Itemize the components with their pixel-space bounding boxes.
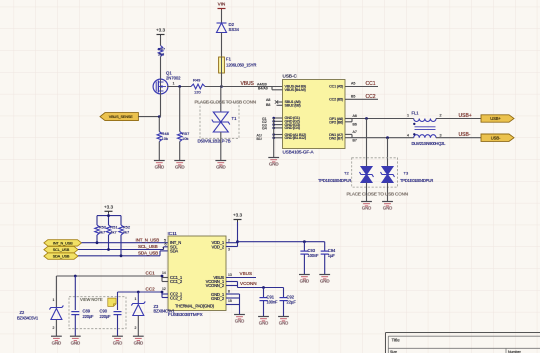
svg-text:SCL_USB: SCL_USB <box>53 247 70 252</box>
svg-text:A8: A8 <box>266 98 270 102</box>
node VDD junction <box>236 240 239 243</box>
wire INT_N net <box>82 242 169 244</box>
ground (R48) <box>154 161 165 170</box>
svg-text:PLACE CLOSE TO USB CONN: PLACE CLOSE TO USB CONN <box>347 192 408 197</box>
svg-text:1: 1 <box>135 297 137 301</box>
svg-text:12: 12 <box>162 287 166 291</box>
svg-text:GND: GND <box>362 206 371 211</box>
svg-text:B8: B8 <box>266 103 270 107</box>
svg-text:3: 3 <box>440 133 442 137</box>
node Q1/R57 junction <box>178 85 181 88</box>
wire D2 to F1 <box>221 33 223 58</box>
svg-text:220pF: 220pF <box>100 314 112 319</box>
svg-text:100nF: 100nF <box>267 300 279 305</box>
pin CC1 wire <box>345 86 378 88</box>
svg-text:B4/A9: B4/A9 <box>258 87 268 91</box>
node DN/T3 junction <box>386 136 389 139</box>
ground (C93) <box>299 275 310 284</box>
svg-text:2: 2 <box>228 238 230 242</box>
svg-text:SDA_USB: SDA_USB <box>138 251 158 256</box>
capacitor C91 <box>260 288 279 317</box>
ground (C90) <box>112 336 123 345</box>
svg-text:GND_2: GND_2 <box>211 296 225 301</box>
svg-text:1206L050_15YR: 1206L050_15YR <box>226 63 256 68</box>
TVS diode T3 <box>381 167 409 183</box>
op-amp IC11 FUSB303B <box>168 231 227 317</box>
wire R50 to INT_N <box>96 235 98 243</box>
power +3.3 (IC11 VDD) <box>233 213 243 223</box>
wire R48 to ground <box>158 142 160 161</box>
svg-text:IC11: IC11 <box>168 231 178 236</box>
svg-text:Z2: Z2 <box>20 310 26 315</box>
ground (T2) <box>361 202 372 211</box>
node VBUS junction at F1 <box>220 85 223 88</box>
svg-text:GND: GND <box>259 321 268 326</box>
node C91 junction <box>262 286 265 289</box>
svg-text:CC2: CC2 <box>146 287 156 292</box>
svg-text:C90: C90 <box>100 309 108 314</box>
node R51 junction <box>107 248 110 251</box>
wire IC11 ground tie <box>226 294 240 314</box>
svg-text:B5: B5 <box>351 94 355 98</box>
wire USB-C ground bus <box>272 117 282 157</box>
ground (IC11) <box>234 315 245 324</box>
svg-text:T1: T1 <box>232 116 238 121</box>
inductor FL1 common-mode choke <box>407 111 446 146</box>
wire R57 to ground <box>179 142 181 161</box>
svg-text:USB-C: USB-C <box>283 74 298 79</box>
svg-text:SDA: SDA <box>170 248 178 253</box>
ground (T1) <box>215 161 226 170</box>
transistor Q1 <box>153 71 181 95</box>
svg-text:FL1: FL1 <box>412 111 420 116</box>
svg-text:TPD1E01B04DPLR: TPD1E01B04DPLR <box>318 178 351 183</box>
T1 dashed box <box>200 102 239 138</box>
svg-text:GND (G4): GND (G4) <box>285 126 301 130</box>
wire SCL net <box>78 247 168 250</box>
wire VBUS node to T1 <box>220 87 222 113</box>
resistor R52 <box>119 225 131 236</box>
wire VBUS to USB-C <box>222 86 283 88</box>
pin DN wires <box>345 130 357 142</box>
svg-text:USB4105-GF-A: USB4105-GF-A <box>283 150 315 155</box>
svg-text:SS34: SS34 <box>229 27 240 32</box>
svg-text:B1/: B1/ <box>257 137 262 141</box>
svg-text:VCONN_2: VCONN_2 <box>206 283 225 288</box>
wire CC1 to Z2 <box>55 276 57 308</box>
ground (C94) <box>319 275 330 284</box>
capacitor C94 <box>321 242 336 274</box>
wire DN junction to T3 <box>387 138 389 166</box>
svg-text:GND: GND <box>216 165 225 170</box>
VIEW NOTE dashed box <box>69 297 126 329</box>
node pull-up tie <box>107 214 110 217</box>
power +3.3 (Q1 pull-up) <box>156 28 166 38</box>
wire VDD to decoupling caps <box>238 241 325 243</box>
svg-text:4k7: 4k7 <box>110 230 117 235</box>
wire CC2 to C90 <box>117 292 119 310</box>
svg-text:GND: GND <box>113 340 122 345</box>
port INT_N_USB <box>44 240 82 246</box>
svg-text:+3.3: +3.3 <box>156 28 166 33</box>
svg-text:A7: A7 <box>353 130 357 134</box>
ground (T3) <box>382 202 393 211</box>
svg-text:GND: GND <box>155 165 164 170</box>
resistor R48 <box>157 131 170 142</box>
svg-text:INT_N_USB: INT_N_USB <box>53 240 73 245</box>
svg-text:VDD_2: VDD_2 <box>212 244 225 249</box>
svg-text:PLACE CLOSE TO USB CONN: PLACE CLOSE TO USB CONN <box>195 100 256 105</box>
node CC1 pin tie <box>161 275 164 278</box>
svg-text:TPD1E01B04DPLR: TPD1E01B04DPLR <box>400 178 433 183</box>
svg-text:VBUS (B4 A9): VBUS (B4 A9) <box>285 88 307 92</box>
ground (USB-C shell) <box>268 158 279 167</box>
port SCL_USB <box>44 246 78 252</box>
svg-text:4k7: 4k7 <box>123 230 130 235</box>
svg-text:A6: A6 <box>353 114 357 118</box>
zener Z2 <box>17 298 63 330</box>
svg-text:T2: T2 <box>344 171 349 176</box>
wire R52 to SDA <box>120 235 122 256</box>
node R50 junction <box>96 241 99 244</box>
ground (C91) <box>258 317 269 326</box>
svg-text:GND: GND <box>134 340 143 345</box>
power VIN <box>218 2 226 12</box>
svg-text:BZX84C5V1: BZX84C5V1 <box>17 315 39 320</box>
node R52 junction <box>120 254 123 257</box>
node CC2 pin tie <box>161 291 164 294</box>
power +3.3 (pull-ups) <box>104 204 114 214</box>
svg-text:1: 1 <box>407 114 409 118</box>
svg-text:2: 2 <box>135 326 137 330</box>
resistor R47 <box>158 46 166 57</box>
wire Z2 to ground <box>55 320 57 337</box>
svg-text:3k3: 3k3 <box>158 52 165 57</box>
svg-text:CC2_2: CC2_2 <box>170 295 183 300</box>
svg-text:GND: GND <box>71 340 80 345</box>
svg-text:3: 3 <box>228 247 230 251</box>
svg-text:22µF: 22µF <box>287 300 297 305</box>
svg-text:USB+: USB+ <box>490 116 501 121</box>
svg-text:2: 2 <box>440 114 442 118</box>
ground (Z3) <box>133 336 144 345</box>
svg-text:DP2 (B6): DP2 (B6) <box>329 121 344 125</box>
svg-text:8: 8 <box>228 290 230 294</box>
svg-text:1: 1 <box>53 298 55 302</box>
svg-text:15: 15 <box>228 299 232 303</box>
svg-text:B7: B7 <box>353 138 357 142</box>
svg-text:10k: 10k <box>162 136 168 141</box>
svg-text:1µF: 1µF <box>328 253 336 258</box>
T2 T3 dashed box <box>352 158 398 187</box>
svg-text:DN2 (B7): DN2 (B7) <box>329 137 344 141</box>
svg-text:USB-: USB- <box>459 132 471 138</box>
svg-text:220pF: 220pF <box>83 314 95 319</box>
TVS diode T2 <box>344 167 374 183</box>
svg-text:GND: GND <box>300 279 309 284</box>
resistor R50 <box>95 225 107 236</box>
svg-text:100nF: 100nF <box>308 253 320 258</box>
resistor R57 <box>178 131 191 142</box>
svg-text:13: 13 <box>228 273 232 277</box>
svg-text:CC2 (B5): CC2 (B5) <box>329 98 344 102</box>
wire node to R57 <box>179 87 181 132</box>
svg-text:BZX84C5V1: BZX84C5V1 <box>154 308 176 313</box>
resistor R51 <box>106 225 118 236</box>
node Z3 junction <box>137 291 140 294</box>
svg-text:+3.3: +3.3 <box>104 204 114 209</box>
diode D2 <box>217 22 240 33</box>
svg-text:B6: B6 <box>353 123 357 127</box>
capacitor C93 <box>300 242 319 274</box>
wire DN to FL1 <box>352 137 414 139</box>
svg-text:GND: GND <box>235 319 244 324</box>
wire VBUS pin stub <box>271 87 273 90</box>
pin DP wires <box>345 114 357 127</box>
node gate junction <box>158 115 161 118</box>
wire VBUS_SENSE to Q1 gate net <box>138 116 159 118</box>
svg-text:10k: 10k <box>182 136 188 141</box>
svg-text:VBUS_SENSE: VBUS_SENSE <box>109 115 133 119</box>
svg-text:CC1_2: CC1_2 <box>170 279 183 284</box>
wire CC1 net <box>56 276 168 282</box>
svg-text:GND: GND <box>383 206 392 211</box>
ground (Z2) <box>51 336 62 345</box>
svg-text:DLW21SN900HQ2L: DLW21SN900HQ2L <box>412 141 447 146</box>
svg-text:6: 6 <box>165 243 167 247</box>
svg-text:CC1: CC1 <box>146 271 156 276</box>
zener Z3 <box>131 297 175 330</box>
wire VIN to D2 <box>221 10 223 23</box>
svg-text:CC1: CC1 <box>366 81 376 87</box>
capacitor C92 <box>280 288 297 317</box>
wire CC1 to C89 <box>74 276 76 310</box>
svg-text:GND: GND <box>52 340 61 345</box>
ground (C89) <box>70 336 81 345</box>
svg-text:C89: C89 <box>83 309 91 314</box>
pin SBU2 stub <box>277 104 283 106</box>
wire FL1 to USB- port <box>436 137 481 139</box>
svg-text:4k7: 4k7 <box>99 230 106 235</box>
wire CC2 to Z3 <box>137 292 139 304</box>
wire +3.3 to R47 <box>160 36 162 46</box>
svg-text:SCL_USB: SCL_USB <box>138 244 158 249</box>
wire Q1 source down <box>160 94 162 117</box>
wire VCONN net <box>226 282 284 288</box>
wire +3.3 pull-up tie <box>97 214 121 225</box>
wire VDD tie <box>226 222 238 247</box>
ground (C92) <box>278 317 289 326</box>
svg-text:T3: T3 <box>404 171 409 176</box>
svg-text:INT_N_USB: INT_N_USB <box>136 237 160 242</box>
capacitor C89 <box>71 309 94 337</box>
svg-text:VIN: VIN <box>218 2 226 7</box>
port USB- <box>481 134 514 141</box>
svg-text:Title: Title <box>392 337 401 342</box>
svg-text:F1: F1 <box>226 57 232 62</box>
note icon <box>108 298 116 306</box>
svg-text:1: 1 <box>173 82 175 86</box>
wire T2 to ground <box>366 183 368 202</box>
svg-text:2N7002: 2N7002 <box>166 76 181 81</box>
svg-text:CC2: CC2 <box>366 94 376 100</box>
svg-text:USB+: USB+ <box>459 113 472 119</box>
wire DP junction to T2 <box>366 119 368 167</box>
wire R47 to Q1 drain <box>160 57 162 80</box>
svg-text:+3.3: +3.3 <box>233 213 243 218</box>
wire FL1 to USB+ port <box>436 118 481 120</box>
wire T3 to ground <box>387 183 389 202</box>
node C89 junction <box>74 275 77 278</box>
svg-text:7: 7 <box>162 247 164 251</box>
svg-text:THERMAL_PAD(GND): THERMAL_PAD(GND) <box>175 304 215 309</box>
svg-text:D50V0L1B2LP-7B: D50V0L1B2LP-7B <box>198 139 231 144</box>
svg-text:VCONN: VCONN <box>240 281 257 286</box>
wire Z3 to ground <box>137 316 139 337</box>
svg-text:14: 14 <box>162 271 166 275</box>
port SDA_USB <box>44 253 78 259</box>
resistor R49 <box>191 78 205 95</box>
connector USB-C <box>283 74 346 155</box>
svg-text:SDA_USB: SDA_USB <box>53 254 70 259</box>
svg-text:4: 4 <box>407 133 409 137</box>
svg-text:G4: G4 <box>262 127 267 131</box>
svg-text:A5: A5 <box>351 82 355 86</box>
svg-text:120: 120 <box>194 90 201 95</box>
wire Q1 pin1 to node <box>167 86 191 88</box>
fuse F1 <box>219 57 257 74</box>
svg-text:VIEW NOTE: VIEW NOTE <box>80 297 103 302</box>
svg-text:SBU2 (B8): SBU2 (B8) <box>285 104 302 108</box>
wire F1 to VBUS node <box>221 73 223 87</box>
wire SDA net <box>78 251 168 256</box>
svg-text:R49: R49 <box>193 78 201 83</box>
capacitor C90 <box>100 309 122 337</box>
svg-text:USB-: USB- <box>491 135 501 140</box>
svg-text:GND: GND <box>175 165 184 170</box>
svg-text:GND: GND <box>320 279 329 284</box>
pin SBU1 stub <box>277 101 283 103</box>
pin CC2 wire <box>345 98 378 100</box>
wire R49 to VBUS node <box>205 86 222 88</box>
node DP/T2 junction <box>365 117 368 120</box>
ground (R57) <box>174 161 185 170</box>
svg-text:GND: GND <box>269 162 278 167</box>
wire CC2 net <box>118 292 169 298</box>
title block <box>386 333 540 353</box>
svg-text:2: 2 <box>53 326 55 330</box>
svg-text:CC1 (A5): CC1 (A5) <box>329 85 344 89</box>
node C93 junction <box>303 240 306 243</box>
TVS diode T1 <box>212 112 237 132</box>
port USB+ <box>481 115 514 122</box>
wire DP to FL1 <box>352 118 414 120</box>
port VBUS_SENSE <box>100 113 138 121</box>
wire VBUS pin (IC11) <box>226 277 256 279</box>
svg-text:GND: GND <box>279 321 288 326</box>
wire R51 to SCL <box>108 235 110 250</box>
wire T1 to ground <box>220 132 222 160</box>
svg-text:VBUS: VBUS <box>240 271 253 276</box>
svg-text:GND (B1 A12): GND (B1 A12) <box>285 136 307 140</box>
